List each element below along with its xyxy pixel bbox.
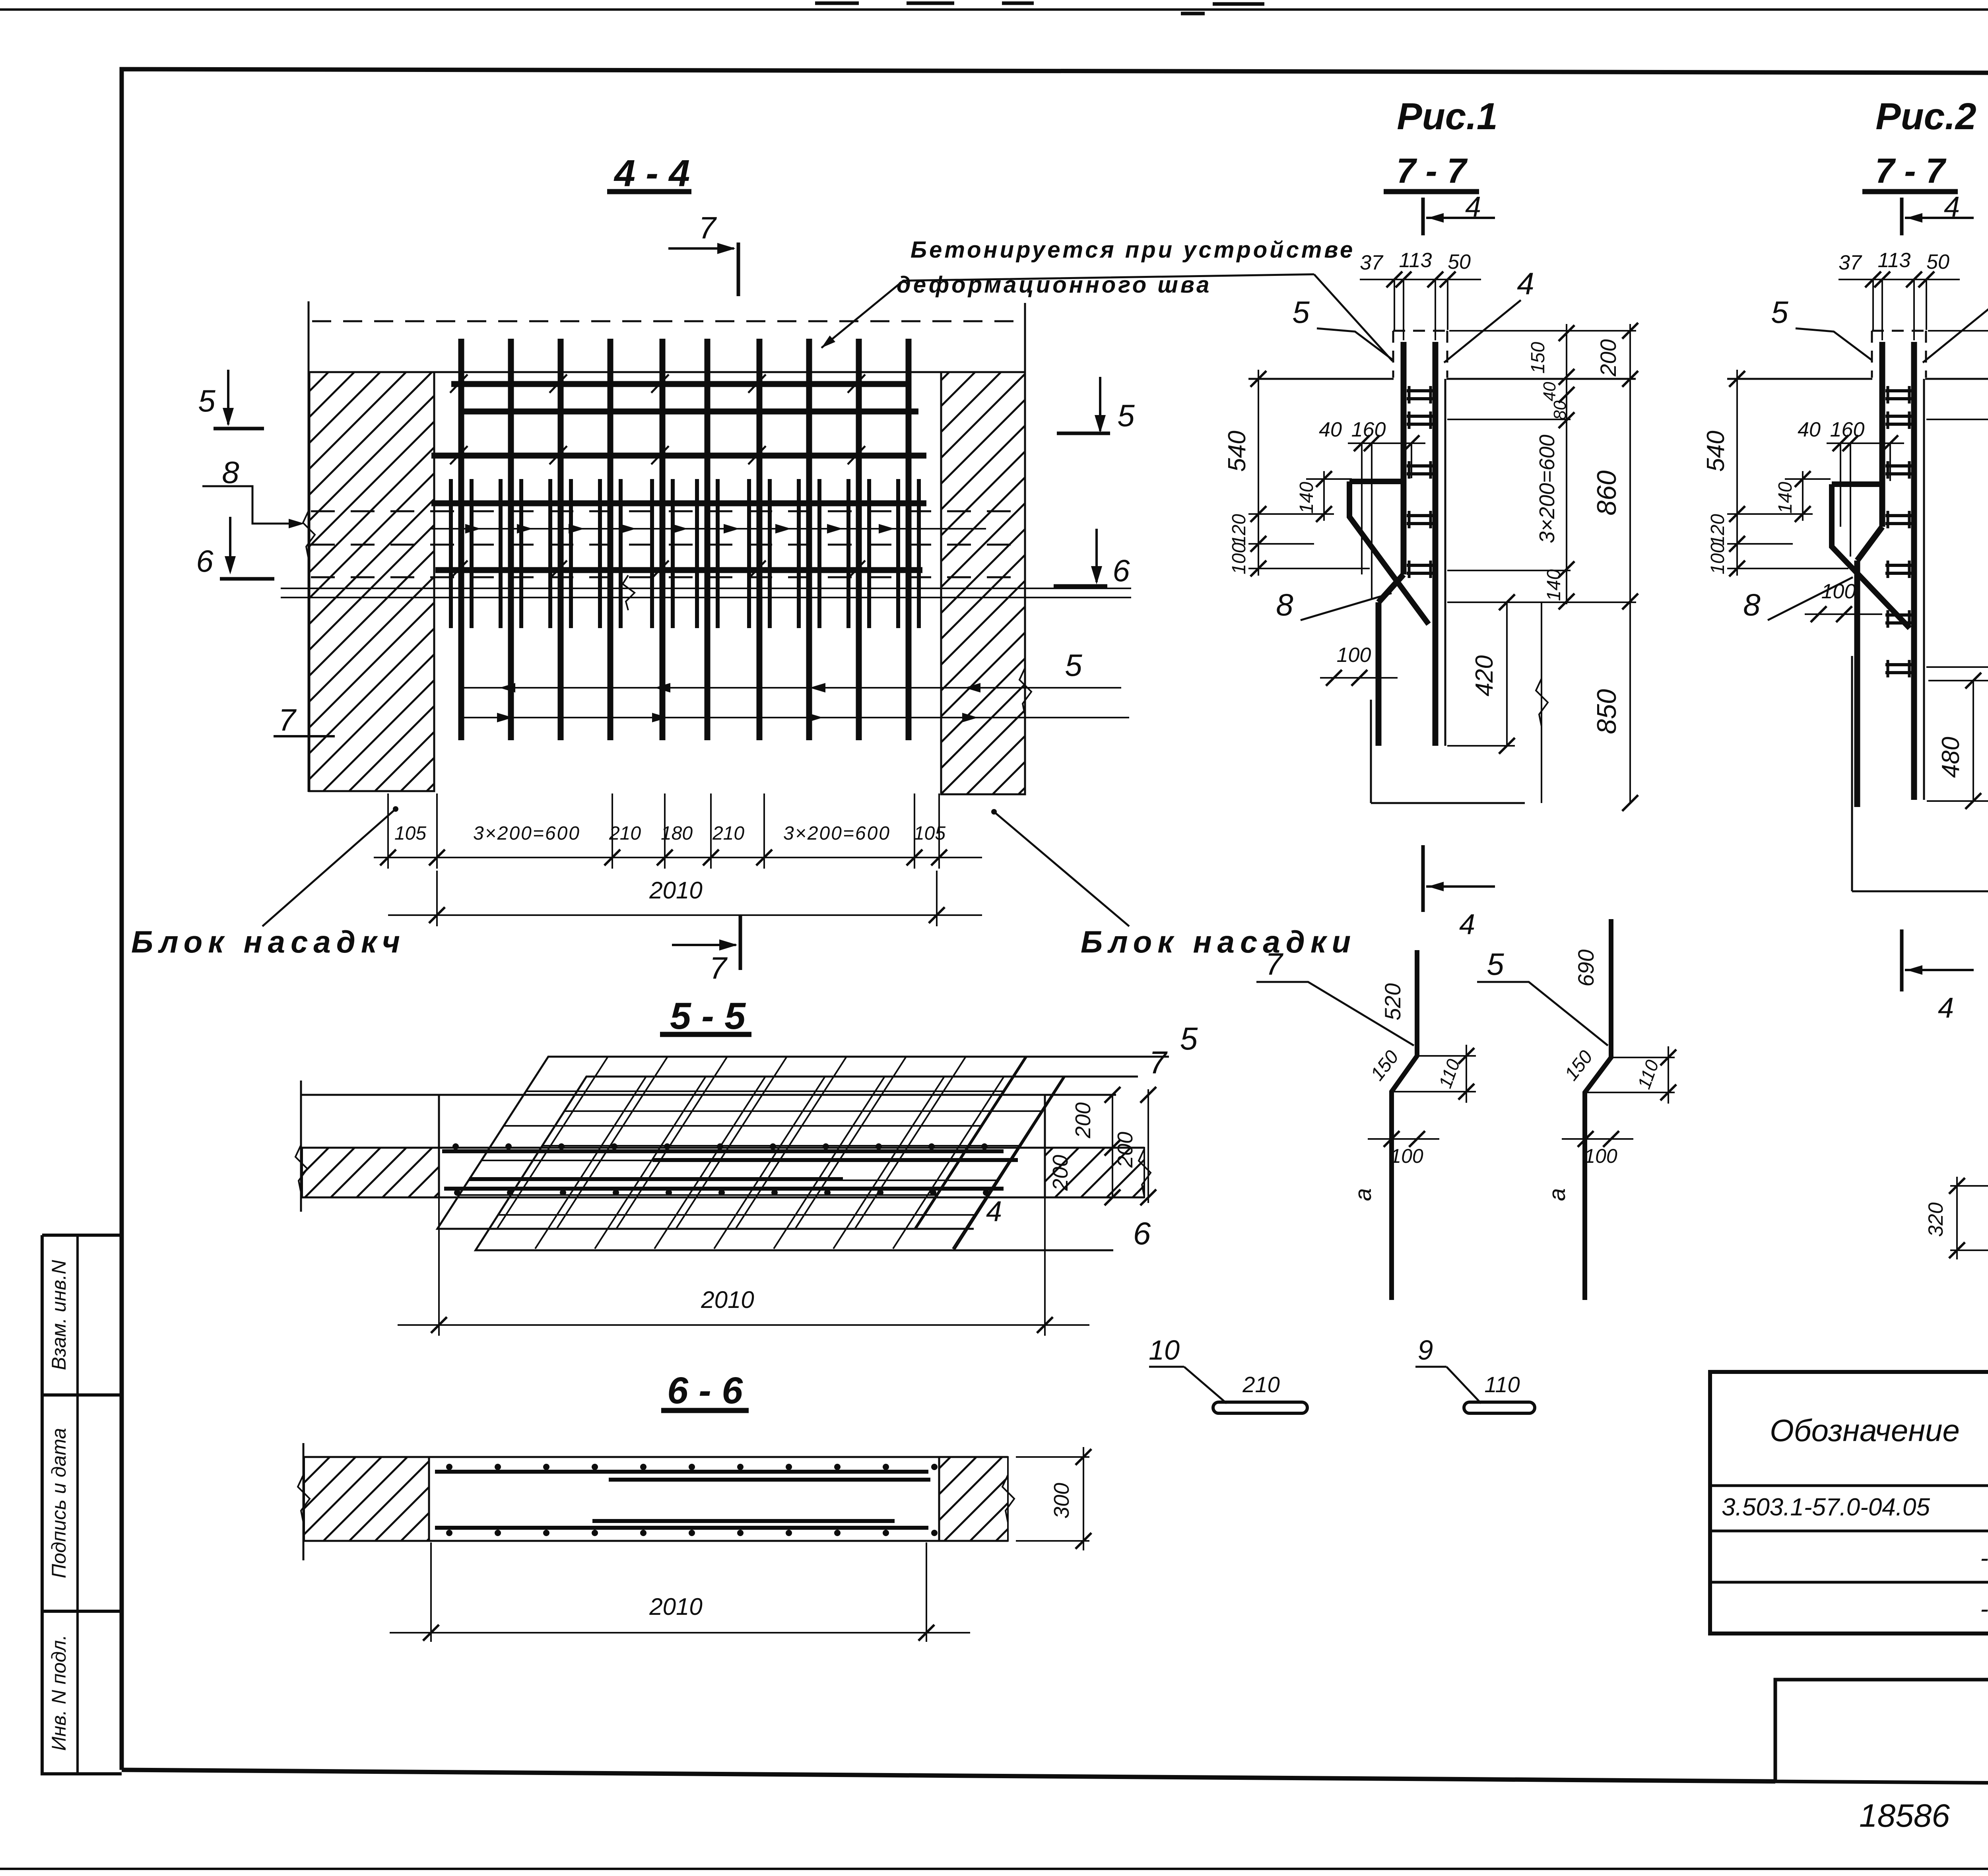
slab top line 5-5 xyxy=(301,1094,1116,1096)
opening edges 5-5 xyxy=(438,1095,440,1197)
svg-text:8: 8 xyxy=(222,455,239,490)
mesh sheet A grid 5-5 xyxy=(398,1057,1074,1229)
svg-text:100: 100 xyxy=(1584,1145,1617,1167)
slab edge line Ris.1 xyxy=(1444,379,1446,746)
svg-text:4: 4 xyxy=(986,1196,1002,1228)
svg-text:6: 6 xyxy=(1133,1216,1151,1251)
main frame bottom line xyxy=(122,1770,1775,1781)
mesh sheet B outline 5-5 xyxy=(476,1077,1065,1250)
arrow line lower left 4-4 xyxy=(461,687,1121,689)
right hatch 5-5 xyxy=(1045,1148,1144,1197)
svg-text:420: 420 xyxy=(1471,655,1498,696)
svg-text:850: 850 xyxy=(1592,689,1622,734)
dims 200 5-5 xyxy=(1112,1095,1113,1197)
dim 300 6-6 xyxy=(1016,1456,1089,1458)
svg-text:80: 80 xyxy=(1550,400,1570,420)
svg-text:7 - 7: 7 - 7 xyxy=(1875,151,1947,190)
leader 5 5-5 xyxy=(1027,1056,1169,1058)
svg-text:5: 5 xyxy=(1292,295,1310,330)
svg-text:8: 8 xyxy=(1276,587,1293,622)
svg-text:210: 210 xyxy=(1242,1372,1279,1397)
svg-text:100: 100 xyxy=(1229,543,1250,574)
svg-text:5: 5 xyxy=(1771,295,1788,330)
svg-text:Блок насадкч: Блок насадкч xyxy=(131,924,406,959)
svg-text:5 - 5: 5 - 5 xyxy=(670,995,746,1037)
bent bar 8 Ris.2 xyxy=(1832,481,1884,487)
svg-text:2010: 2010 xyxy=(649,1593,702,1620)
section mark 4 top Ris.1 xyxy=(1421,198,1425,235)
svg-text:5: 5 xyxy=(1487,947,1504,982)
svg-text:113: 113 xyxy=(1878,249,1911,272)
right outer dim chain Ris.1 xyxy=(1629,324,1631,803)
svg-text:Взам. инв.N: Взам. инв.N xyxy=(48,1259,70,1370)
detail bar 10 loop xyxy=(1213,1402,1307,1413)
left boundary 6-6 xyxy=(303,1443,305,1560)
svg-text:a: a xyxy=(1544,1188,1570,1201)
detail bar 5 dim 100 xyxy=(1562,1138,1633,1140)
detail bar 5 dim 110 xyxy=(1611,1057,1675,1058)
svg-text:6: 6 xyxy=(196,543,214,578)
detail bar 7 xyxy=(1392,950,1417,1300)
top rebar overlap 6-6 xyxy=(609,1478,930,1482)
svg-text:5: 5 xyxy=(198,383,215,418)
level lines right Ris.2 xyxy=(1926,419,1988,420)
svg-text:7: 7 xyxy=(1149,1045,1168,1080)
mesh paired verticals 4-4 xyxy=(451,479,919,628)
svg-text:2010: 2010 xyxy=(701,1286,754,1313)
bar 7 tail Ris.2 xyxy=(1854,561,1860,807)
slab top level line Ris.2 xyxy=(1727,378,1872,380)
bottom rebar overlap 5-5 xyxy=(469,1177,843,1181)
right hatch 6-6 xyxy=(939,1457,1008,1541)
svg-text:4: 4 xyxy=(1465,191,1481,223)
svg-text:6: 6 xyxy=(1112,553,1130,588)
vert dim Ris.1 lower xyxy=(1506,602,1508,746)
svg-text:4: 4 xyxy=(1944,191,1960,223)
joint double line 4-4 xyxy=(281,588,1131,589)
svg-text:9: 9 xyxy=(1418,1335,1433,1366)
bar 5 left main Ris.2 xyxy=(1879,342,1885,527)
dashed future concrete box Ris.1 xyxy=(1393,330,1447,332)
detail bar 5 xyxy=(1585,919,1611,1300)
svg-text:6 - 6: 6 - 6 xyxy=(667,1370,743,1412)
svg-text:520: 520 xyxy=(1380,983,1405,1020)
svg-text:7 - 7: 7 - 7 xyxy=(1396,151,1468,190)
svg-text:200: 200 xyxy=(1113,1132,1137,1168)
dashed future concrete box Ris.2 xyxy=(1872,330,1926,332)
svg-text:4: 4 xyxy=(1517,266,1534,301)
svg-text:210: 210 xyxy=(712,823,744,844)
dashed rebar lines 4-4 xyxy=(311,510,1023,512)
break line Ris.1 xyxy=(1541,602,1542,803)
detail bar 8 dim 320 vertical xyxy=(1950,1185,1988,1187)
table outline xyxy=(1710,1372,1988,1633)
svg-text:140: 140 xyxy=(1296,482,1317,514)
bar 5 left main Ris.1 xyxy=(1401,342,1407,574)
svg-text:18586: 18586 xyxy=(1859,1798,1950,1834)
svg-text:40: 40 xyxy=(1798,418,1821,441)
section mark 4 top Ris.2 xyxy=(1900,198,1904,235)
extension lines to dims 4-4 xyxy=(388,793,939,926)
svg-text:Бетонируется при устройстве: Бетонируется при устройстве xyxy=(911,237,1355,263)
page bottom border line xyxy=(0,1868,1988,1870)
arrow line upper 4-4 xyxy=(431,528,986,530)
sidebar row line 1 xyxy=(42,1393,122,1397)
note leader right xyxy=(1314,274,1392,361)
mesh sheet B grid 5-5 xyxy=(437,1077,1113,1249)
svg-text:Рис.1: Рис.1 xyxy=(1397,95,1497,138)
svg-text:4: 4 xyxy=(1938,992,1954,1024)
svg-text:10: 10 xyxy=(1149,1335,1180,1366)
section mark 4 bottom Ris.2 xyxy=(1900,929,1904,991)
section mark 7 top xyxy=(737,243,740,296)
svg-text:100: 100 xyxy=(1390,1145,1423,1167)
break mark right boundary xyxy=(1019,668,1031,716)
right boundary line 4-4 xyxy=(1024,303,1026,795)
svg-text:105: 105 xyxy=(394,823,426,844)
slab outline 6-6 xyxy=(303,1456,1008,1458)
svg-text:300: 300 xyxy=(1050,1483,1074,1519)
opening edges 6-6 xyxy=(428,1457,430,1541)
bar 7 jog Ris.1 xyxy=(1378,574,1404,602)
svg-text:2010: 2010 xyxy=(649,877,702,904)
top rebar 6-6 xyxy=(435,1470,928,1474)
svg-text:120: 120 xyxy=(1707,514,1728,546)
svg-text:-02: -02 xyxy=(1980,1595,1988,1623)
detail bar 9 loop xyxy=(1464,1402,1535,1413)
svg-text:320: 320 xyxy=(1924,1203,1947,1237)
left boundary line 4-4 xyxy=(308,301,310,792)
bent bar 8 Ris.1 xyxy=(1349,479,1402,484)
left boundary 5-5 xyxy=(300,1081,302,1212)
mesh sheet A outline 5-5 xyxy=(437,1057,1027,1229)
note leader left xyxy=(821,274,1314,348)
svg-text:150: 150 xyxy=(1528,342,1549,374)
bottom rebar overlap 6-6 xyxy=(592,1519,895,1523)
svg-text:140: 140 xyxy=(1543,569,1565,601)
svg-text:40: 40 xyxy=(1319,418,1342,441)
svg-text:a: a xyxy=(1350,1188,1376,1201)
dimension line 4-4 segments xyxy=(374,857,982,858)
svg-text:7: 7 xyxy=(709,951,728,986)
left block hatch 4-4 xyxy=(309,372,434,791)
svg-text:200: 200 xyxy=(1048,1155,1072,1191)
svg-text:100: 100 xyxy=(1337,644,1371,667)
dim 2010 6-6 xyxy=(430,1542,432,1642)
svg-text:-01: -01 xyxy=(1980,1544,1988,1572)
left dim chain Ris.1 xyxy=(1258,370,1259,576)
section mark 7 bottom xyxy=(739,914,742,970)
left dim chain Ris.2 xyxy=(1736,370,1738,576)
svg-text:7: 7 xyxy=(278,702,297,737)
svg-text:Рис.2: Рис.2 xyxy=(1875,95,1976,138)
svg-text:113: 113 xyxy=(1399,249,1432,272)
top level line right Ris.2 xyxy=(1928,330,1988,332)
vert dim Ris.2 lower xyxy=(1972,681,1974,801)
svg-text:690: 690 xyxy=(1573,949,1598,986)
scan junk dashes top xyxy=(815,2,859,5)
section mark 4 bottom Ris.1 xyxy=(1421,845,1425,912)
slab top level line Ris.1 xyxy=(1248,378,1394,380)
dim 2010 5-5 xyxy=(438,1197,440,1336)
right break edge 6-6 xyxy=(1002,1475,1014,1523)
svg-text:7: 7 xyxy=(1265,947,1283,982)
svg-text:210: 210 xyxy=(609,823,641,844)
slab edge line Ris.2 xyxy=(1923,379,1925,800)
bottom rebar row 5-5 xyxy=(444,1187,1004,1191)
bar 4 right main Ris.1 xyxy=(1433,342,1439,746)
svg-text:120: 120 xyxy=(1229,514,1250,546)
arrow line lower right 4-4 xyxy=(460,717,1129,718)
svg-text:860: 860 xyxy=(1592,470,1622,516)
leader 4 5-5 xyxy=(437,1228,974,1230)
dim 140 left Ris.2 xyxy=(1802,471,1804,521)
svg-text:37: 37 xyxy=(1360,251,1384,274)
svg-text:3×200=600: 3×200=600 xyxy=(473,823,580,844)
title block outline xyxy=(1775,1680,1988,1787)
bar 4 right main Ris.2 xyxy=(1911,342,1917,800)
table row lines xyxy=(1710,1484,1988,1487)
svg-text:4: 4 xyxy=(1459,909,1475,941)
top rebar overlap 5-5 xyxy=(652,1158,1018,1162)
mesh horizontal bars 4-4 xyxy=(451,381,911,387)
svg-text:5: 5 xyxy=(1117,398,1135,433)
svg-text:40: 40 xyxy=(1540,382,1559,401)
svg-text:Инв. N подл.: Инв. N подл. xyxy=(48,1635,70,1751)
svg-text:100: 100 xyxy=(1707,543,1728,574)
svg-text:50: 50 xyxy=(1926,250,1949,274)
right block hatch 4-4 xyxy=(941,372,1025,794)
rungs Ris.1 xyxy=(1407,386,1433,578)
leader 6 5-5 xyxy=(476,1249,1113,1251)
svg-text:200: 200 xyxy=(1071,1102,1095,1139)
svg-text:540: 540 xyxy=(1223,431,1251,471)
svg-text:50: 50 xyxy=(1448,250,1471,274)
svg-text:4 - 4: 4 - 4 xyxy=(613,152,690,194)
mesh vertical bars 4-4 xyxy=(461,339,909,740)
sidebar box xyxy=(42,1234,122,1237)
bottom boundary line Ris.1 xyxy=(1371,802,1525,804)
mesh tie marks 4-4 xyxy=(450,374,865,579)
svg-text:37: 37 xyxy=(1839,251,1862,274)
svg-text:3.503.1-57.0-04.05: 3.503.1-57.0-04.05 xyxy=(1722,1494,1930,1521)
svg-text:200: 200 xyxy=(1596,339,1621,376)
svg-text:Подпись и дата: Подпись и дата xyxy=(48,1428,70,1578)
dimension line 4-4 total 2010 xyxy=(388,914,982,916)
svg-text:Обозначение: Обозначение xyxy=(1770,1413,1960,1448)
dashed top line 4-4 xyxy=(312,320,1022,322)
bottom boundary line Ris.2 xyxy=(1852,890,1988,892)
leader 7 5-5 xyxy=(1065,1076,1138,1078)
svg-text:100: 100 xyxy=(1821,580,1856,603)
bottom rebar 6-6 xyxy=(435,1526,928,1530)
svg-text:5: 5 xyxy=(1180,1021,1198,1056)
svg-text:3×200=600: 3×200=600 xyxy=(1535,435,1559,543)
level lines right Ris.1 xyxy=(1447,419,1571,420)
bar 7 tail Ris.1 xyxy=(1376,602,1382,746)
right inner dim chain Ris.1 xyxy=(1566,324,1567,604)
left hatch 5-5 xyxy=(302,1148,439,1197)
svg-text:8: 8 xyxy=(1743,587,1760,622)
joint break mark xyxy=(623,575,635,610)
detail bar 7 dim 100 xyxy=(1417,1057,1417,1149)
break mark left boundary xyxy=(303,511,315,559)
page top border line xyxy=(0,8,1988,11)
svg-text:540: 540 xyxy=(1702,431,1730,471)
svg-text:5: 5 xyxy=(1065,648,1082,683)
svg-text:3×200=600: 3×200=600 xyxy=(783,823,891,844)
dim 140 left Ris.1 xyxy=(1323,471,1325,521)
top level line right Ris.1 xyxy=(1449,330,1636,332)
svg-text:180: 180 xyxy=(661,823,693,844)
svg-text:105: 105 xyxy=(914,823,945,844)
slab top line 4-4 xyxy=(309,371,1025,373)
svg-text:480: 480 xyxy=(1937,737,1965,778)
detail bar 7 dim 110 xyxy=(1417,1055,1476,1057)
sidebar row line 2 xyxy=(42,1610,122,1613)
top rebar row 5-5 xyxy=(442,1149,1004,1153)
svg-text:110: 110 xyxy=(1484,1372,1520,1397)
svg-text:7: 7 xyxy=(699,210,717,245)
svg-text:Блок насадки: Блок насадки xyxy=(1081,924,1356,959)
right hatch break edge 5-5 xyxy=(1139,1149,1151,1197)
rungs Ris.2 xyxy=(1885,386,1912,677)
left hatch 6-6 xyxy=(304,1457,429,1541)
slab band lines 5-5 xyxy=(301,1147,1144,1149)
svg-text:140: 140 xyxy=(1775,482,1796,514)
bar 7 jog Ris.2 xyxy=(1857,527,1882,561)
sidebar divider column xyxy=(76,1235,79,1774)
